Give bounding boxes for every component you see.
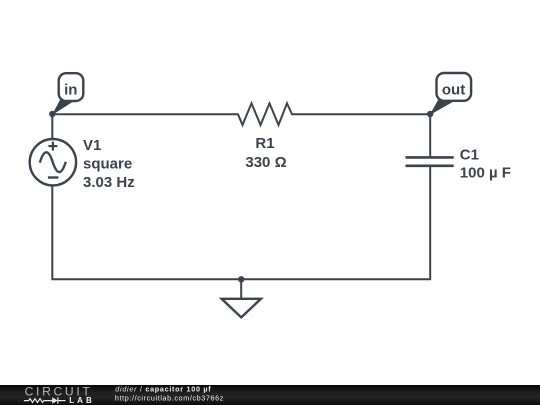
svg-text:100 µ F: 100 µ F (460, 165, 511, 182)
svg-text:http://circuitlab.com/cb3766z: http://circuitlab.com/cb3766z (115, 393, 224, 402)
svg-text:square: square (83, 156, 132, 173)
svg-text:330 Ω: 330 Ω (245, 154, 286, 171)
svg-text:in: in (64, 81, 77, 98)
svg-text:3.03 Hz: 3.03 Hz (83, 174, 135, 191)
svg-text:C1: C1 (460, 147, 479, 164)
svg-text:LAB: LAB (69, 396, 92, 405)
svg-text:V1: V1 (83, 137, 101, 154)
svg-text:R1: R1 (255, 135, 274, 152)
svg-text:out: out (442, 82, 465, 99)
svg-text:didier / capacitor 100 µf: didier / capacitor 100 µf (115, 384, 211, 393)
